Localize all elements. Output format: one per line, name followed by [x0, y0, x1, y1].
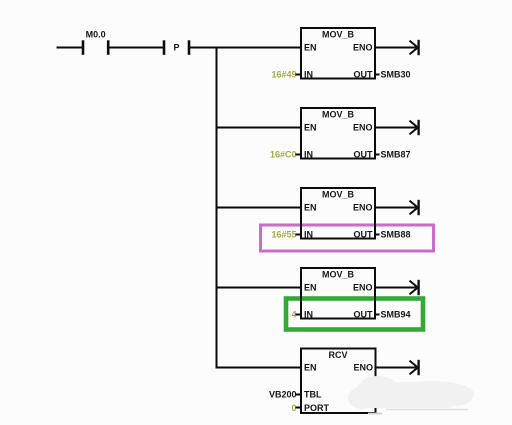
wire TBL tick: [296, 394, 302, 396]
svg-text:ENO: ENO: [353, 362, 373, 372]
svg-text:IN: IN: [304, 70, 313, 80]
svg-text:ENO: ENO: [353, 202, 373, 212]
wire rung left segment: [57, 47, 84, 49]
svg-text:MOV_B: MOV_B: [322, 109, 355, 119]
wire ENO out block5: [376, 367, 418, 369]
wire IN tick block3: [296, 234, 302, 236]
wire branch 5: [217, 367, 302, 369]
block U3 MOV_B: [301, 188, 375, 240]
svg-text:TBL: TBL: [304, 390, 322, 400]
wire branch 3: [217, 207, 302, 209]
svg-text:P: P: [173, 43, 179, 53]
wire IN tick block4: [296, 314, 302, 316]
watermark blob (erased watermark): [348, 376, 474, 414]
svg-text:IN: IN: [304, 150, 313, 160]
block U5 RCV: [301, 349, 376, 414]
svg-text:EN: EN: [304, 362, 317, 372]
svg-text:ENO: ENO: [353, 122, 373, 132]
wire OUT tick block3: [375, 234, 380, 236]
svg-text:OUT: OUT: [354, 70, 374, 80]
wire ENO out block2: [375, 127, 418, 129]
wire branch 4: [217, 287, 302, 289]
svg-text:SMB30: SMB30: [381, 70, 411, 80]
arrow out 2: [410, 120, 419, 135]
svg-text:ENO: ENO: [353, 282, 373, 292]
contact P (positive edge): [164, 40, 189, 55]
svg-text:M0.0: M0.0: [86, 30, 106, 40]
wire ENO out block4: [375, 287, 418, 289]
svg-text:MOV_B: MOV_B: [322, 189, 355, 199]
svg-text:MOV_B: MOV_B: [322, 269, 355, 279]
block U1 MOV_B: [301, 28, 375, 80]
svg-text:SMB94: SMB94: [381, 310, 411, 320]
wire OUT tick block2: [375, 154, 380, 156]
svg-text:EN: EN: [304, 202, 317, 212]
wire to rail: [189, 47, 218, 49]
svg-text:RCV: RCV: [328, 350, 347, 360]
svg-text:EN: EN: [304, 42, 317, 52]
wire branch 2: [217, 127, 302, 129]
svg-text:OUT: OUT: [354, 150, 374, 160]
arrow out 5: [410, 360, 419, 375]
arrow out 4: [410, 280, 419, 295]
wire OUT tick block1: [375, 74, 380, 76]
wire between contacts: [108, 47, 164, 49]
svg-text:EN: EN: [304, 122, 317, 132]
svg-text:SMB87: SMB87: [381, 150, 411, 160]
svg-text:ENO: ENO: [353, 42, 373, 52]
svg-text:EN: EN: [304, 282, 317, 292]
wire IN tick block1: [296, 74, 302, 76]
highlight box green (around 4 IN/OUT SMB94 row): [286, 299, 423, 330]
arrow out 1: [410, 40, 419, 55]
svg-text:OUT: OUT: [354, 310, 374, 320]
svg-text:16#49: 16#49: [271, 70, 296, 80]
svg-text:OUT: OUT: [354, 230, 374, 240]
wire ENO out block3: [375, 207, 418, 209]
svg-text:IN: IN: [304, 230, 313, 240]
arrow out 3: [410, 200, 419, 215]
wire PORT tick: [296, 407, 302, 409]
wire OUT tick block4: [375, 314, 380, 316]
svg-text:SMB88: SMB88: [381, 230, 411, 240]
svg-text:PORT: PORT: [304, 403, 330, 413]
block U2 MOV_B: [301, 108, 375, 160]
svg-text:16#C0: 16#C0: [270, 150, 297, 160]
svg-text:16#55: 16#55: [271, 230, 296, 240]
svg-text:IN: IN: [304, 310, 313, 320]
wire ENO out block1: [375, 47, 418, 49]
svg-text:VB200: VB200: [269, 390, 297, 400]
highlight box pink (around 16#55 IN/OUT row): [261, 225, 434, 251]
wire branch 1: [217, 47, 302, 49]
vertical rail: [216, 47, 218, 369]
contact M0.0: [83, 30, 108, 55]
wire IN tick block2: [296, 154, 302, 156]
block U4 MOV_B: [301, 268, 375, 320]
svg-text:MOV_B: MOV_B: [322, 29, 355, 39]
